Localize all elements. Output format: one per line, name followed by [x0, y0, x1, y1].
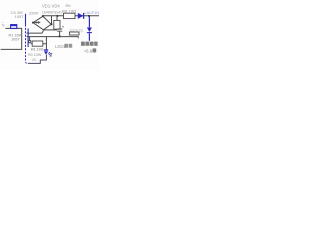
- svg-text:=6.8: =6.8: [84, 48, 93, 53]
- svg-text:VD1-VD4: VD1-VD4: [42, 4, 60, 9]
- svg-text:220V: 220V: [29, 11, 39, 16]
- svg-text:R6: R6: [66, 3, 72, 8]
- svg-text:R0 10W: R0 10W: [28, 53, 42, 57]
- svg-text:LACF1N: LACF1N: [85, 11, 100, 15]
- svg-text:R1 100: R1 100: [31, 47, 43, 51]
- svg-text:105T: 105T: [15, 14, 25, 19]
- svg-text:1N4007(x4): 1N4007(x4): [42, 9, 62, 14]
- svg-text:C2 4.7μ: C2 4.7μ: [70, 28, 83, 32]
- svg-text:R6 10Ω: R6 10Ω: [62, 9, 76, 14]
- svg-text:2C: 2C: [32, 58, 37, 62]
- svg-text:105T: 105T: [11, 37, 20, 41]
- svg-text:N: N: [2, 24, 5, 28]
